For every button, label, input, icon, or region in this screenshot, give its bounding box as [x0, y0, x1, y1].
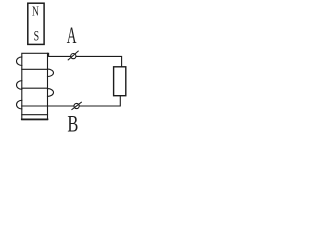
svg-text:A: A — [67, 24, 77, 50]
coil winding line 1 — [22, 68, 48, 70]
bar magnet body — [28, 3, 44, 44]
coil right loop 2 — [48, 89, 54, 97]
wire: coil top to resistor top — [48, 53, 122, 67]
coil left loop 1 — [17, 57, 22, 66]
resistor R — [114, 67, 126, 96]
svg-text:B: B — [67, 112, 78, 137]
terminal A: circle — [71, 54, 76, 59]
svg-text:S: S — [34, 28, 40, 44]
coil right loop 1 — [48, 69, 54, 76]
wire: coil bottom exit to resistor bottom — [22, 96, 121, 106]
terminal B: circle — [74, 103, 79, 108]
core bottom thick edge — [22, 118, 48, 120]
iron core of coil — [22, 53, 48, 119]
coil left loop 2 — [16, 81, 21, 90]
terminal A: slash — [68, 51, 78, 60]
svg-text:N: N — [32, 3, 39, 19]
coil left loop 3 — [17, 100, 22, 109]
terminal B: slash — [72, 102, 81, 109]
coil winding line 2 — [22, 87, 48, 89]
core bottom inner line — [22, 114, 48, 116]
